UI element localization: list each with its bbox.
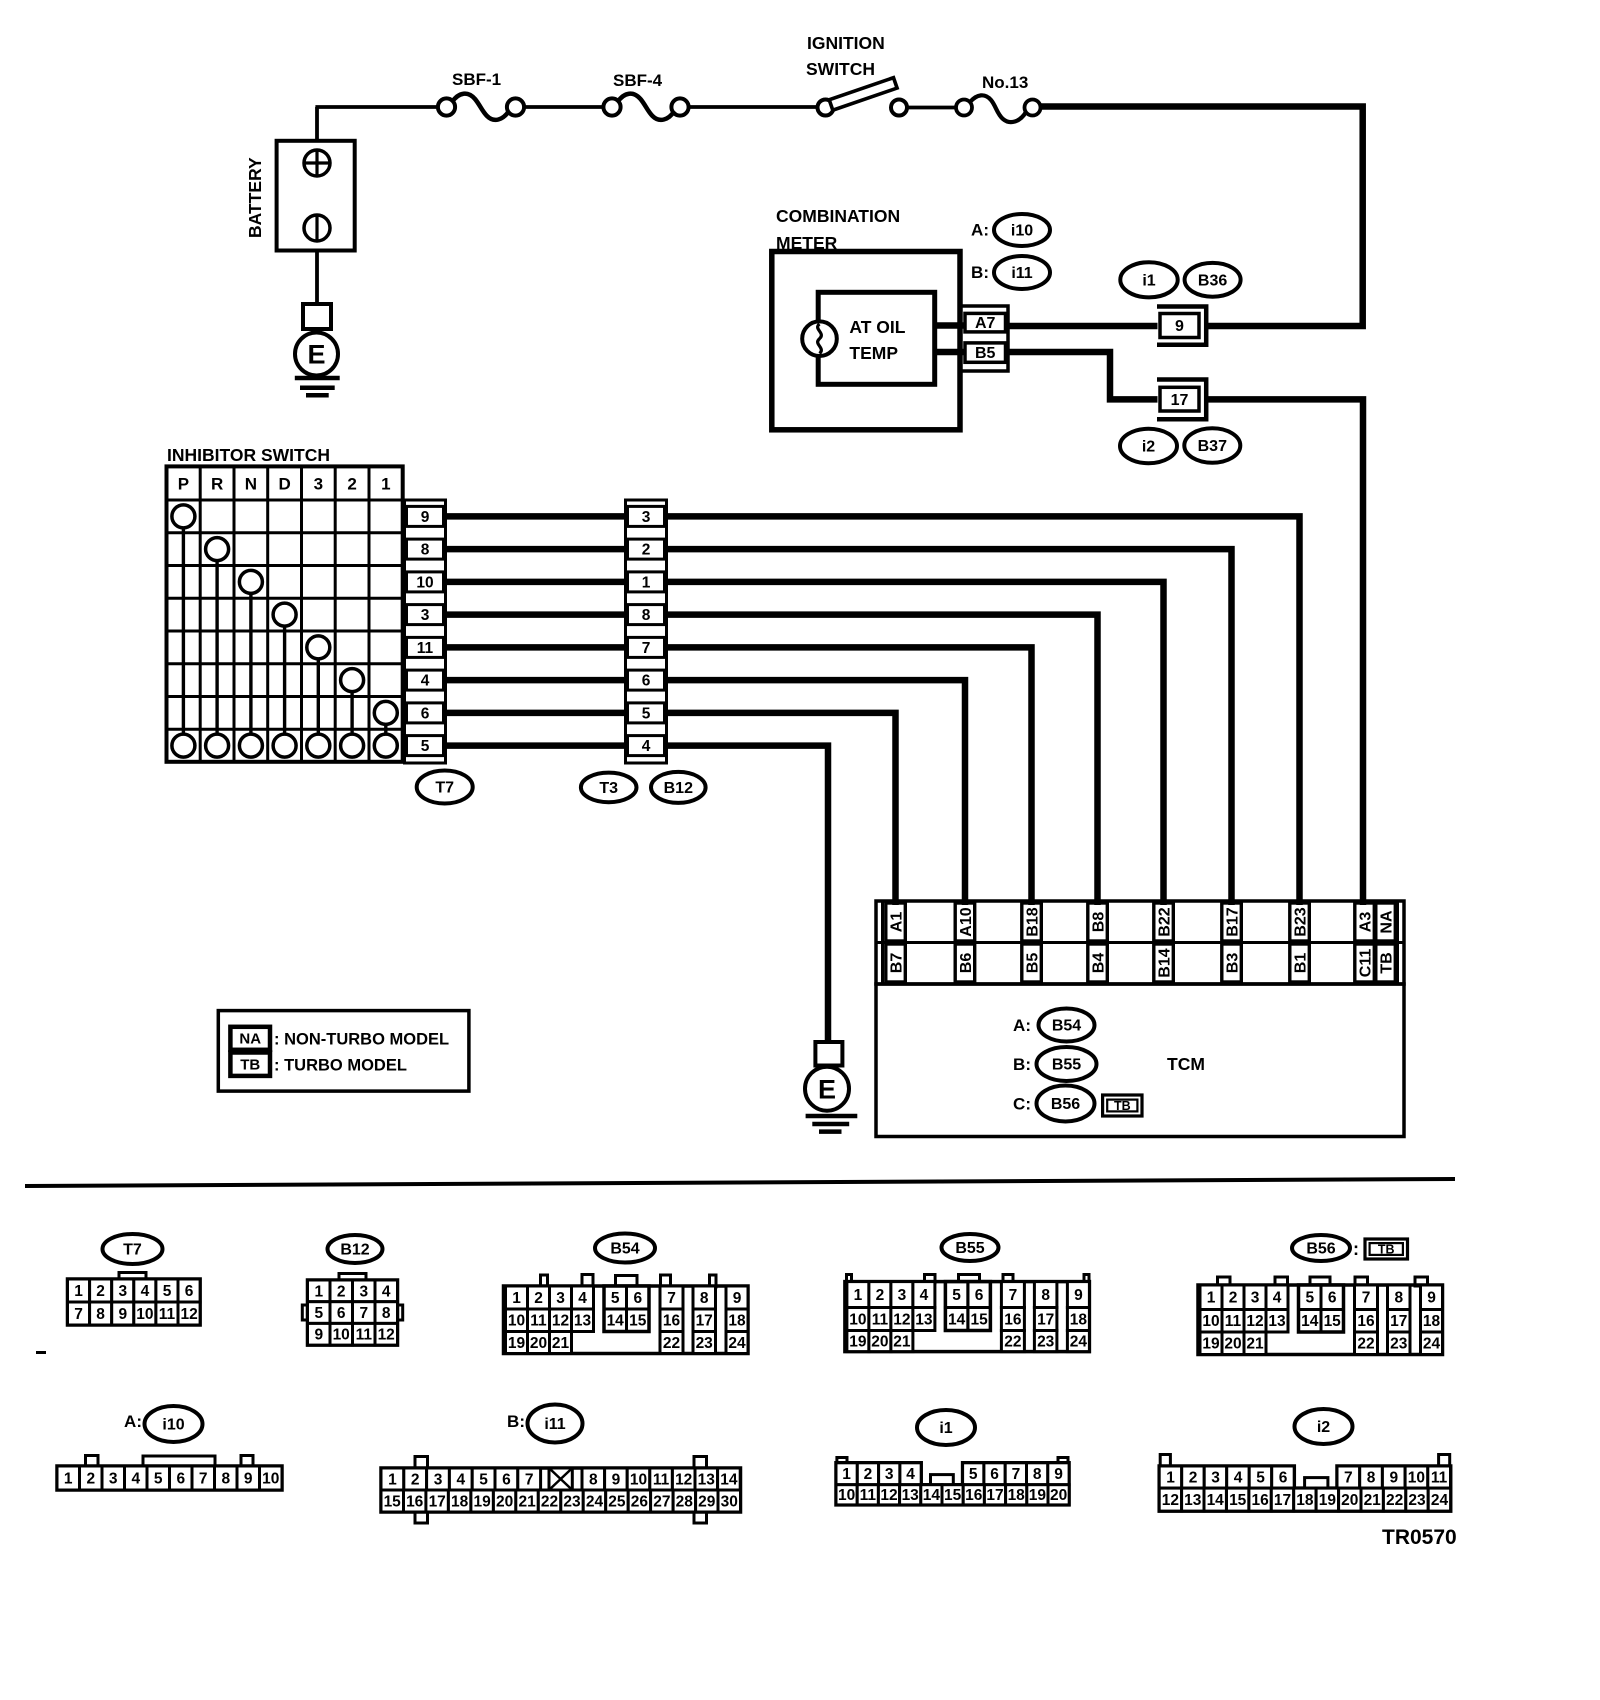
svg-text:19: 19 xyxy=(1319,1492,1337,1509)
inhibitor switch position labels P R N D 3 2 1 xyxy=(178,474,391,493)
pin B5 xyxy=(965,343,1006,362)
svg-text:5: 5 xyxy=(969,1466,978,1483)
TCM pin B4 (bottom row) xyxy=(1088,944,1108,982)
svg-text:B:: B: xyxy=(971,263,989,282)
ignition switch SW1 xyxy=(818,78,908,116)
svg-text:20: 20 xyxy=(496,1493,513,1510)
wire ignition feed No.13 to connector 9 xyxy=(1041,107,1363,327)
inhibitor contact circle col 7 with wire xyxy=(374,701,397,734)
svg-text:B12: B12 xyxy=(664,780,693,797)
svg-text:SBF-4: SBF-4 xyxy=(613,71,663,90)
svg-text:9: 9 xyxy=(314,1327,323,1344)
TCM pin A1 (top row) xyxy=(886,903,906,941)
connector B54 pinout xyxy=(504,1275,749,1354)
inhibitor contact circle col 4 with wire xyxy=(273,603,296,734)
svg-text:5: 5 xyxy=(163,1283,172,1300)
svg-text:9: 9 xyxy=(1427,1290,1436,1307)
svg-text:7: 7 xyxy=(1344,1470,1353,1487)
svg-text:3: 3 xyxy=(885,1466,894,1483)
svg-text:8: 8 xyxy=(589,1471,598,1488)
svg-text:12: 12 xyxy=(675,1471,692,1488)
svg-text:4: 4 xyxy=(578,1290,587,1307)
figure number TR0570 xyxy=(1382,1526,1457,1549)
svg-text:21: 21 xyxy=(1246,1336,1264,1353)
svg-text:8: 8 xyxy=(1367,1470,1376,1487)
svg-text:23: 23 xyxy=(563,1493,581,1510)
svg-text:17: 17 xyxy=(986,1487,1003,1504)
legend NA tag xyxy=(230,1027,270,1050)
svg-text:NA: NA xyxy=(239,1031,261,1048)
svg-text:16: 16 xyxy=(406,1493,424,1510)
svg-text:B56: B56 xyxy=(1306,1241,1335,1258)
label SBF-4 xyxy=(613,71,663,90)
svg-text:7: 7 xyxy=(642,640,651,657)
svg-text:TEMP: TEMP xyxy=(849,343,898,363)
connector T7 pinout xyxy=(68,1273,201,1326)
label IGNITION SWITCH xyxy=(806,33,885,79)
wire T3 pin row 7 to TCM xyxy=(667,713,896,905)
wire T3 pin row 4 to TCM xyxy=(667,615,1098,905)
svg-text:11: 11 xyxy=(1225,1313,1242,1330)
svg-text:B6: B6 xyxy=(958,953,975,974)
svg-text:A:: A: xyxy=(124,1412,142,1431)
svg-text:17: 17 xyxy=(696,1313,713,1330)
svg-text:8: 8 xyxy=(642,607,651,624)
svg-text:TR0570: TR0570 xyxy=(1382,1526,1457,1549)
svg-text:B14: B14 xyxy=(1156,948,1173,977)
svg-text:17: 17 xyxy=(429,1493,446,1510)
svg-text:P: P xyxy=(178,474,189,493)
wire ignition switch to fuse No.13 xyxy=(907,106,956,110)
svg-text:T7: T7 xyxy=(435,780,454,797)
svg-text:14: 14 xyxy=(1301,1313,1319,1330)
TCM pin B18 (top row) xyxy=(1022,903,1042,941)
svg-text:22: 22 xyxy=(1386,1492,1403,1509)
svg-text:12: 12 xyxy=(880,1487,897,1504)
svg-text:21: 21 xyxy=(518,1493,536,1510)
svg-text:27: 27 xyxy=(653,1493,670,1510)
svg-text:3: 3 xyxy=(1211,1470,1220,1487)
svg-text:11: 11 xyxy=(356,1327,373,1344)
svg-text:1: 1 xyxy=(388,1471,397,1488)
label BATTERY xyxy=(245,157,265,238)
inhibitor contact circle col 1 with wire xyxy=(172,505,195,734)
connector i11 oval xyxy=(507,1405,582,1443)
TCM pin B17 (top row) xyxy=(1222,903,1242,941)
svg-text:4: 4 xyxy=(642,738,651,755)
svg-text:1: 1 xyxy=(642,574,651,591)
svg-text:i2: i2 xyxy=(1317,1419,1330,1436)
svg-text:B37: B37 xyxy=(1198,438,1227,455)
svg-text:20: 20 xyxy=(530,1335,547,1352)
svg-text:12: 12 xyxy=(893,1311,910,1328)
svg-text:5: 5 xyxy=(421,738,430,755)
svg-text:6: 6 xyxy=(337,1305,346,1322)
svg-text:14: 14 xyxy=(720,1471,738,1488)
svg-text:18: 18 xyxy=(1423,1313,1441,1330)
svg-text:21: 21 xyxy=(1364,1492,1382,1509)
legend TB tag xyxy=(230,1053,270,1076)
svg-text:10: 10 xyxy=(838,1487,855,1504)
TCM pin C11 (bottom row) xyxy=(1355,944,1375,982)
svg-text:i1: i1 xyxy=(939,1420,952,1437)
connector i10 oval xyxy=(124,1406,202,1442)
ground E (TCM circuit) xyxy=(805,1066,857,1132)
svg-text:6: 6 xyxy=(990,1466,999,1483)
svg-text:i11: i11 xyxy=(544,1416,565,1433)
legend box xyxy=(218,1011,469,1092)
svg-text:6: 6 xyxy=(642,673,651,690)
svg-text:20: 20 xyxy=(871,1334,888,1351)
svg-text:22: 22 xyxy=(1004,1334,1021,1351)
connector i11 pinout with blocked pin xyxy=(381,1457,741,1524)
svg-text:TCM: TCM xyxy=(1167,1054,1205,1074)
svg-text:B23: B23 xyxy=(1292,907,1309,936)
TCM label B: B55 xyxy=(1013,1047,1096,1081)
wire gauge to pin A7 xyxy=(935,322,966,329)
svg-text:No.13: No.13 xyxy=(982,73,1028,92)
svg-text:2: 2 xyxy=(347,474,356,493)
svg-text:9: 9 xyxy=(244,1470,253,1487)
margin tick xyxy=(36,1351,46,1354)
connector labels i2 B37 xyxy=(1120,428,1240,463)
connector B12 pinout xyxy=(302,1274,402,1346)
svg-text:15: 15 xyxy=(629,1313,647,1330)
svg-text:21: 21 xyxy=(893,1334,911,1351)
connector A7/B5 housing xyxy=(960,306,1008,371)
TCM pin B14 (bottom row) xyxy=(1154,944,1174,982)
svg-text:4: 4 xyxy=(382,1283,391,1300)
svg-text:17: 17 xyxy=(1390,1313,1407,1330)
svg-text:3: 3 xyxy=(118,1283,127,1300)
wire T3 pin row 2 to TCM xyxy=(667,549,1232,905)
connector B55 oval xyxy=(942,1234,999,1261)
svg-text:B54: B54 xyxy=(1052,1018,1081,1035)
label TCM xyxy=(1167,1054,1205,1074)
svg-text:28: 28 xyxy=(676,1493,694,1510)
svg-text:1: 1 xyxy=(842,1466,851,1483)
wire connector 17 to TCM A3 xyxy=(1208,399,1364,905)
svg-text:13: 13 xyxy=(915,1311,933,1328)
svg-text:11: 11 xyxy=(1431,1470,1448,1487)
svg-text:18: 18 xyxy=(451,1493,469,1510)
svg-text:6: 6 xyxy=(185,1283,194,1300)
svg-text::: : xyxy=(1353,1239,1359,1259)
label AT OIL xyxy=(849,317,905,337)
svg-text:12: 12 xyxy=(1246,1313,1263,1330)
inhibitor common contact circles bottom row xyxy=(172,734,397,757)
svg-text:18: 18 xyxy=(1008,1487,1026,1504)
svg-text:B3: B3 xyxy=(1224,953,1241,974)
svg-text:8: 8 xyxy=(96,1306,105,1323)
wire T3 pin row 1 to TCM xyxy=(667,516,1300,905)
svg-text:4: 4 xyxy=(421,673,430,690)
svg-text:14: 14 xyxy=(1207,1492,1225,1509)
svg-text:5: 5 xyxy=(642,705,651,722)
svg-text:i1: i1 xyxy=(1142,272,1155,289)
svg-text:B4: B4 xyxy=(1090,953,1107,974)
svg-text:1: 1 xyxy=(381,474,390,493)
connector i2 oval xyxy=(1295,1409,1353,1444)
svg-text:11: 11 xyxy=(417,640,434,657)
svg-text:: TURBO MODEL: : TURBO MODEL xyxy=(274,1057,407,1075)
svg-text:7: 7 xyxy=(359,1305,368,1322)
svg-text:11: 11 xyxy=(530,1313,547,1330)
svg-text:8: 8 xyxy=(700,1290,709,1307)
svg-text:2: 2 xyxy=(411,1471,420,1488)
svg-text:16: 16 xyxy=(663,1313,681,1330)
svg-text:6: 6 xyxy=(633,1290,642,1307)
svg-text:4: 4 xyxy=(920,1287,929,1304)
TCM pin B3 (bottom row) xyxy=(1222,944,1242,982)
TCM pin A3 (top row) xyxy=(1355,903,1375,941)
wire gauge to pin B5 xyxy=(935,349,966,356)
svg-text:24: 24 xyxy=(1431,1492,1449,1509)
svg-text:E: E xyxy=(307,339,325,369)
inhibitor contact circle col 5 with wire xyxy=(307,636,330,734)
TCM pin B23 (top row) xyxy=(1290,903,1310,941)
svg-text:21: 21 xyxy=(552,1335,570,1352)
svg-text:8: 8 xyxy=(1394,1290,1403,1307)
svg-text:24: 24 xyxy=(1423,1336,1441,1353)
svg-text:16: 16 xyxy=(1357,1313,1375,1330)
svg-text:19: 19 xyxy=(1029,1487,1047,1504)
TCM pin B1 (bottom row) xyxy=(1290,944,1310,982)
svg-text:A7: A7 xyxy=(975,315,996,332)
TCM box xyxy=(876,984,1404,1137)
svg-text:T7: T7 xyxy=(123,1242,142,1259)
connector 9 (i1/B36) xyxy=(1157,307,1206,345)
svg-text:8: 8 xyxy=(382,1305,391,1322)
svg-text:10: 10 xyxy=(136,1306,153,1323)
svg-text:B36: B36 xyxy=(1198,272,1227,289)
svg-text:4: 4 xyxy=(456,1471,465,1488)
svg-text:1: 1 xyxy=(74,1283,83,1300)
svg-text:14: 14 xyxy=(948,1311,966,1328)
svg-text:4: 4 xyxy=(131,1470,140,1487)
svg-text:8: 8 xyxy=(221,1470,230,1487)
svg-text:5: 5 xyxy=(611,1290,620,1307)
TCM TB tag xyxy=(1103,1095,1142,1116)
svg-text:3: 3 xyxy=(109,1470,118,1487)
svg-text:B55: B55 xyxy=(1052,1057,1081,1074)
wire SBF-4 to ignition switch xyxy=(689,105,818,109)
fuse No.13 xyxy=(956,95,1041,122)
svg-text:B5: B5 xyxy=(975,345,996,362)
combination meter box xyxy=(772,252,960,430)
svg-text:2: 2 xyxy=(1189,1470,1198,1487)
svg-text:5: 5 xyxy=(1256,1470,1265,1487)
connector i10 pinout xyxy=(57,1456,282,1491)
svg-text:19: 19 xyxy=(849,1334,867,1351)
label No.13 xyxy=(982,73,1028,92)
svg-text:10: 10 xyxy=(262,1470,279,1487)
svg-text:11: 11 xyxy=(159,1306,176,1323)
svg-text:19: 19 xyxy=(508,1335,526,1352)
svg-text:1: 1 xyxy=(1166,1470,1175,1487)
svg-text:B54: B54 xyxy=(610,1241,639,1258)
svg-text:15: 15 xyxy=(970,1311,988,1328)
svg-text:9: 9 xyxy=(1175,318,1184,335)
svg-text:11: 11 xyxy=(872,1311,889,1328)
svg-text:2: 2 xyxy=(96,1283,105,1300)
svg-text:13: 13 xyxy=(574,1313,592,1330)
wire T3 pin row 6 to TCM xyxy=(667,680,966,905)
svg-text:23: 23 xyxy=(1390,1336,1408,1353)
svg-text:B8: B8 xyxy=(1090,912,1107,933)
svg-text:10: 10 xyxy=(630,1471,647,1488)
svg-text:B22: B22 xyxy=(1156,907,1173,936)
label B12 oval xyxy=(651,772,706,803)
svg-text:15: 15 xyxy=(384,1493,402,1510)
TCM pin B6 (bottom row) xyxy=(955,944,975,982)
connector i2 pinout xyxy=(1159,1455,1451,1512)
svg-text:7: 7 xyxy=(1009,1287,1018,1304)
svg-text:3: 3 xyxy=(898,1287,907,1304)
inhibitor switch grid xyxy=(167,466,403,761)
wires T7 to T3 (8 rows) xyxy=(446,516,626,745)
ground E (battery) xyxy=(295,333,340,396)
svg-text:A3: A3 xyxy=(1357,912,1374,933)
svg-text:6: 6 xyxy=(176,1470,185,1487)
svg-text:2: 2 xyxy=(534,1290,543,1307)
svg-text:E: E xyxy=(818,1075,836,1105)
svg-text:2: 2 xyxy=(864,1466,873,1483)
svg-text:i11: i11 xyxy=(1011,265,1032,282)
svg-text:7: 7 xyxy=(199,1470,208,1487)
inhibitor contact circle col 2 with wire xyxy=(206,538,229,735)
svg-text:T3: T3 xyxy=(599,780,618,797)
svg-text:29: 29 xyxy=(698,1493,716,1510)
svg-text:9: 9 xyxy=(1054,1466,1063,1483)
svg-text:20: 20 xyxy=(1341,1492,1358,1509)
svg-text:B17: B17 xyxy=(1224,907,1241,936)
svg-text:6: 6 xyxy=(1328,1290,1337,1307)
svg-text:8: 8 xyxy=(1041,1287,1050,1304)
svg-text:25: 25 xyxy=(608,1493,626,1510)
svg-text:A:: A: xyxy=(1013,1016,1031,1035)
svg-text:7: 7 xyxy=(667,1290,676,1307)
svg-text:18: 18 xyxy=(728,1313,746,1330)
svg-text:19: 19 xyxy=(473,1493,491,1510)
svg-text:10: 10 xyxy=(333,1327,350,1344)
svg-text:14: 14 xyxy=(923,1487,941,1504)
connector B55 pinout xyxy=(845,1275,1090,1352)
wire T3 pin row 5 to TCM xyxy=(667,647,1032,905)
svg-text:17: 17 xyxy=(1274,1492,1291,1509)
svg-text:18: 18 xyxy=(1070,1311,1088,1328)
legend TB text xyxy=(274,1057,407,1075)
svg-text:17: 17 xyxy=(1037,1311,1054,1328)
connector T7 oval xyxy=(103,1234,163,1264)
svg-text:12: 12 xyxy=(1162,1492,1179,1509)
svg-text:AT OIL: AT OIL xyxy=(849,317,905,337)
label COMBINATION METER xyxy=(776,206,900,253)
svg-text:A10: A10 xyxy=(958,907,975,936)
inhibitor contact circle col 3 with wire xyxy=(239,570,262,734)
wire pin A7 to connector 9 xyxy=(1008,323,1158,330)
svg-text:10: 10 xyxy=(1202,1313,1219,1330)
svg-text:3: 3 xyxy=(359,1283,368,1300)
svg-text:B5: B5 xyxy=(1024,953,1041,974)
svg-text:23: 23 xyxy=(696,1335,714,1352)
svg-text:13: 13 xyxy=(698,1471,716,1488)
svg-text:5: 5 xyxy=(952,1287,961,1304)
svg-text:R: R xyxy=(211,474,223,493)
connector 17 (i2/B37) xyxy=(1157,380,1206,420)
battery B1 xyxy=(277,141,355,251)
svg-text:5: 5 xyxy=(479,1471,488,1488)
svg-text:1: 1 xyxy=(1207,1290,1216,1307)
svg-text:5: 5 xyxy=(314,1305,323,1322)
svg-text:16: 16 xyxy=(1251,1492,1269,1509)
svg-text:i2: i2 xyxy=(1142,439,1155,456)
fuse SBF-1 xyxy=(438,94,524,120)
svg-text:23: 23 xyxy=(1408,1492,1426,1509)
svg-text:19: 19 xyxy=(1202,1336,1220,1353)
svg-text:26: 26 xyxy=(631,1493,649,1510)
svg-text:16: 16 xyxy=(965,1487,983,1504)
svg-text:15: 15 xyxy=(944,1487,962,1504)
svg-text:1: 1 xyxy=(512,1290,521,1307)
svg-text:B1: B1 xyxy=(1292,953,1309,974)
legend NA text xyxy=(274,1031,449,1049)
svg-text:3: 3 xyxy=(314,474,323,493)
ground terminal box (battery) xyxy=(303,304,331,329)
svg-text:15: 15 xyxy=(1324,1313,1342,1330)
connector B56 pinout xyxy=(1198,1277,1443,1355)
label T3 oval xyxy=(581,773,637,803)
svg-text:30: 30 xyxy=(721,1493,738,1510)
svg-text:9: 9 xyxy=(733,1290,742,1307)
svg-text:COMBINATION: COMBINATION xyxy=(776,206,900,226)
wire battery positive to fuse SBF-1 xyxy=(315,107,438,142)
svg-text:C:: C: xyxy=(1013,1095,1031,1114)
svg-text:11: 11 xyxy=(860,1487,877,1504)
TCM pin TB (bottom row) xyxy=(1376,944,1396,982)
indicator lamp (AT OIL TEMP) xyxy=(802,321,837,356)
svg-text:N: N xyxy=(245,474,257,493)
TCM label C: B56 xyxy=(1013,1086,1094,1122)
svg-text:10: 10 xyxy=(1408,1470,1425,1487)
svg-text:INHIBITOR SWITCH: INHIBITOR SWITCH xyxy=(167,445,330,465)
pin A7 xyxy=(965,313,1006,332)
wire pin B5 to connector 17 xyxy=(1008,352,1158,399)
svg-text:24: 24 xyxy=(1070,1334,1088,1351)
svg-text:B:: B: xyxy=(1013,1055,1031,1074)
svg-text:3: 3 xyxy=(642,509,651,526)
svg-text:4: 4 xyxy=(906,1466,915,1483)
battery positive terminal xyxy=(304,150,330,176)
svg-text:B18: B18 xyxy=(1024,907,1041,936)
svg-text:1: 1 xyxy=(854,1287,863,1304)
svg-text:6: 6 xyxy=(1279,1470,1288,1487)
connector labels i1 B36 xyxy=(1120,262,1240,297)
svg-text:20: 20 xyxy=(1224,1336,1241,1353)
svg-text:11: 11 xyxy=(653,1471,670,1488)
svg-text:13: 13 xyxy=(902,1487,920,1504)
svg-text:2: 2 xyxy=(86,1470,95,1487)
svg-text:22: 22 xyxy=(1357,1336,1374,1353)
svg-text:BATTERY: BATTERY xyxy=(245,157,265,238)
TCM label A: B54 xyxy=(1013,1009,1094,1042)
connector strip T7 pins xyxy=(405,500,446,763)
TCM pin B7 (bottom row) xyxy=(886,944,906,982)
svg-text:15: 15 xyxy=(1229,1492,1247,1509)
svg-text:B:: B: xyxy=(507,1412,525,1431)
battery negative terminal xyxy=(304,215,330,241)
svg-text:16: 16 xyxy=(1004,1311,1022,1328)
